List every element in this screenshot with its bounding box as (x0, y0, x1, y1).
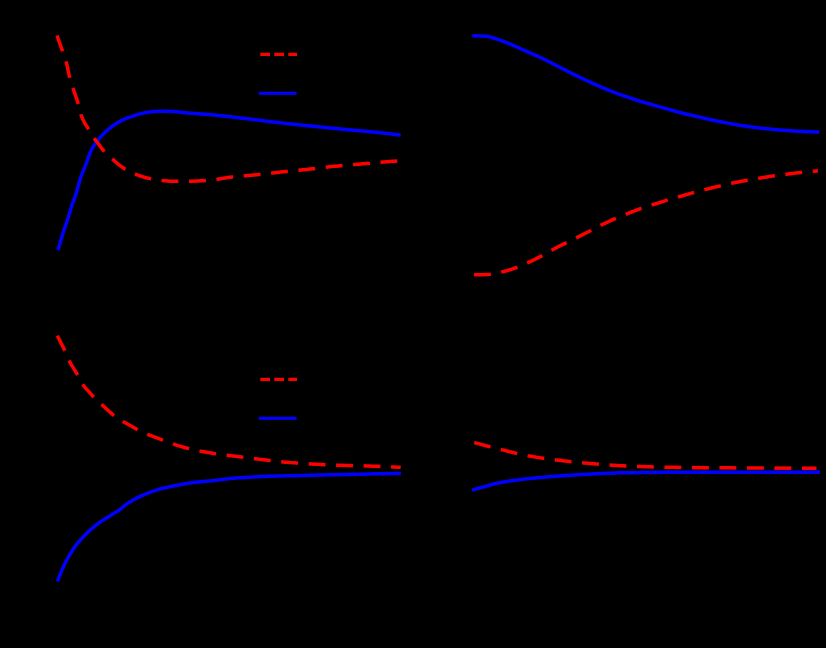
bottom-left subplot: blue solid curve (58, 473, 399, 580)
bottom-right subplot: blue solid curve (474, 472, 819, 489)
top-left subplot: blue solid curve x1(t) (59, 111, 399, 248)
top-right subplot: red dashed curve (474, 171, 818, 275)
top-left legend: red dashed sample (260, 53, 297, 56)
bottom-left legend: red dashed sample (260, 378, 297, 381)
bottom-left subplot: red dashed curve (57, 336, 400, 468)
bottom-left legend: blue solid sample (260, 417, 295, 420)
top-left subplot: red dashed curve x2(t) (57, 35, 401, 181)
top-left legend: blue solid sample (260, 92, 295, 95)
bottom-right subplot: red dashed curve (474, 443, 816, 469)
top-right subplot: blue solid curve (474, 36, 818, 132)
